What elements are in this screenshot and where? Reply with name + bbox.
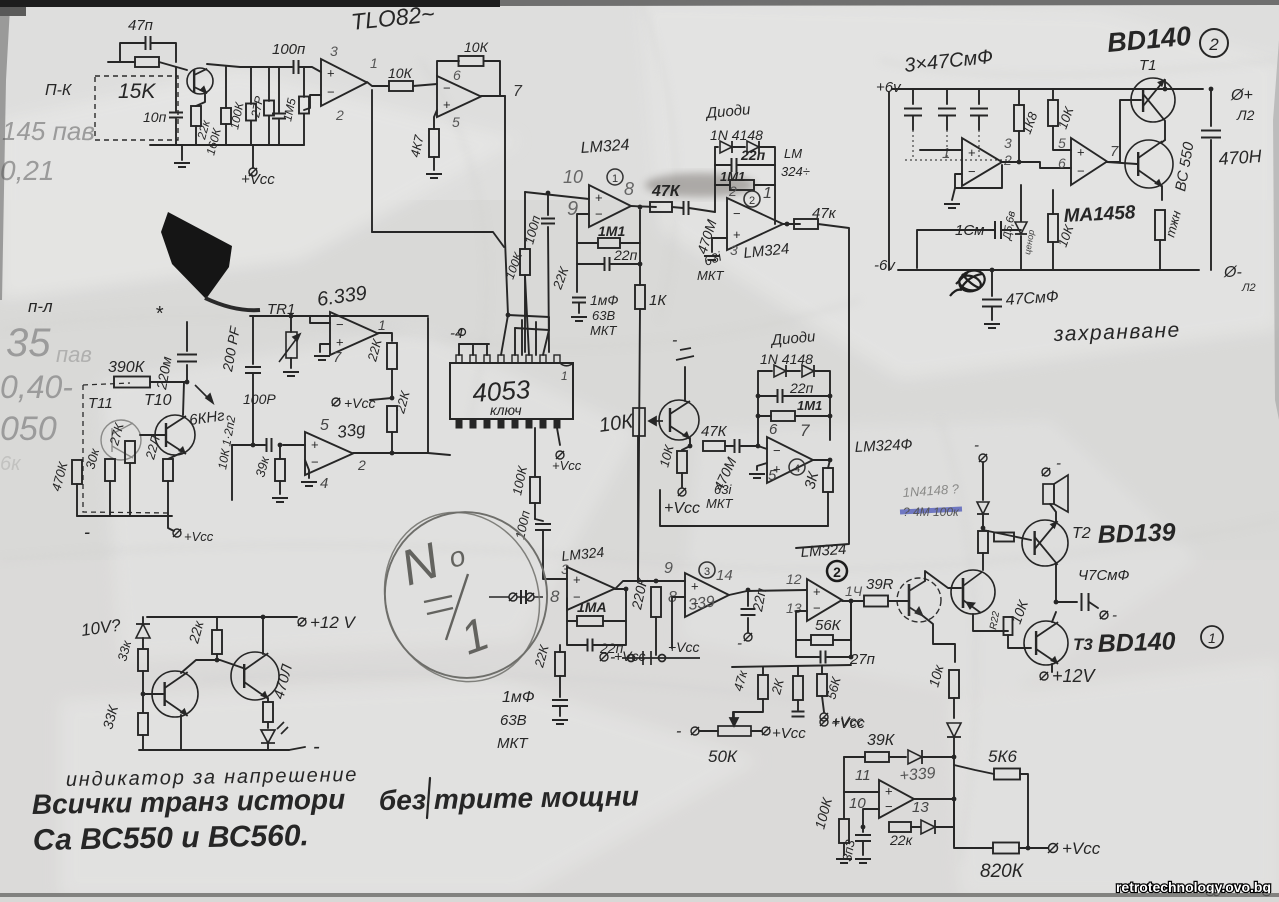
wire below 100K — [534, 503, 536, 519]
wire ind A emitter — [180, 715, 182, 750]
wire top chain to driver2 — [982, 553, 984, 570]
wire diode b to vert — [936, 826, 954, 828]
svg-text:−: − — [595, 207, 603, 222]
node net — [849, 655, 854, 660]
svg-text:+: + — [968, 145, 976, 160]
svg-text:12: 12 — [786, 571, 802, 587]
resistor 1M stage5 fb — [577, 616, 603, 626]
pencil No text — [394, 532, 495, 665]
svg-text:22п: 22п — [789, 380, 814, 396]
svg-text:22п: 22п — [613, 247, 638, 263]
wire driver1 coll — [925, 571, 961, 588]
svg-text:1мФ: 1мФ — [502, 689, 535, 706]
wire 47K to cap — [672, 207, 683, 208]
wire to vcc right — [1028, 847, 1048, 849]
wire fb4 mid — [787, 370, 800, 372]
circled 1 stage1 — [607, 169, 623, 185]
potentiometer 50K — [718, 712, 751, 736]
wire fb4 22n right — [784, 395, 830, 397]
zener D5V6 — [1015, 222, 1027, 234]
svg-text:-: - — [676, 723, 681, 740]
wire 3n3 bottom — [862, 842, 864, 855]
resistor 39K osc — [865, 752, 889, 762]
capacitor 2k bottom — [792, 712, 805, 717]
wire gnd stub — [181, 145, 183, 160]
node plus rail — [546, 191, 551, 196]
wire bus pin2 — [472, 344, 474, 355]
node 22n right — [638, 262, 643, 267]
wire 56K net top — [821, 666, 823, 674]
svg-text:МКТ: МКТ — [706, 496, 733, 511]
capacitor 47CmF bottom — [982, 300, 1002, 307]
wire fb4 right — [815, 371, 830, 440]
resistor 220K — [651, 587, 661, 617]
svg-text:пав: пав — [56, 342, 92, 367]
resistor 4K7 — [429, 129, 439, 157]
resistor 1M1 stage4 — [771, 411, 795, 421]
phi vcc stage3b — [600, 653, 608, 661]
ground 1uF stage5 — [552, 720, 568, 724]
node 22k mid — [390, 396, 395, 401]
wire 22n stage5 right — [593, 621, 626, 645]
wire driver2 node — [1001, 630, 1008, 632]
capacitor 100P — [267, 438, 272, 452]
svg-text:П-К: П-К — [45, 82, 73, 99]
transistor driver1 — [897, 578, 941, 622]
svg-text:+: + — [443, 97, 451, 112]
wire 2K bottom — [797, 700, 799, 710]
resistor 22k osc — [889, 822, 911, 832]
op-amp LM324 stage4 — [767, 437, 813, 483]
wire 100n below join — [535, 519, 543, 521]
wire 22K ind bottom — [216, 654, 218, 660]
svg-text:33g: 33g — [336, 419, 367, 442]
resistor 22K a — [387, 343, 397, 369]
svg-text:+: + — [691, 579, 699, 594]
svg-text:-4: -4 — [450, 325, 463, 342]
wire p-l bottom rail — [77, 515, 172, 517]
wire 100n top stub — [547, 193, 549, 215]
svg-text:LМ324: LМ324 — [800, 541, 847, 561]
smudge charcoal — [645, 173, 755, 197]
svg-text:7: 7 — [333, 349, 342, 366]
svg-text:-: - — [974, 437, 979, 454]
wire stage4 bottom rail — [660, 490, 828, 526]
wire stage5 fb — [603, 589, 626, 621]
wire stage1 plus rail — [525, 192, 589, 199]
resistor 56K fb — [811, 635, 833, 645]
wire 1M5 top — [303, 67, 305, 97]
wire 47k bottom — [733, 699, 763, 720]
phi Vcc 4053 — [556, 451, 564, 459]
capacitor mid — [272, 114, 286, 119]
node 22p tap — [746, 588, 751, 593]
pencil No dash — [424, 574, 468, 640]
phi 50K right — [762, 727, 770, 735]
svg-text:27п: 27п — [849, 651, 875, 668]
wire 10k down — [231, 445, 233, 500]
wire input to 15K — [108, 61, 135, 63]
resistor 15K — [135, 57, 159, 67]
capacitor 22p — [741, 609, 756, 615]
resistor 22ohm — [163, 459, 173, 481]
svg-text:100п: 100п — [272, 41, 305, 58]
node stage4 out — [828, 458, 833, 463]
wire 1M5 bottom — [303, 114, 305, 145]
stroke under moshtni — [427, 778, 430, 818]
pin bottom 1 4053 — [456, 419, 462, 428]
pin top 6 4053 — [526, 355, 532, 363]
wire 22p top — [747, 590, 749, 606]
pin top 3 4053 — [484, 355, 490, 363]
wire 820K right — [1019, 847, 1028, 849]
circled 3 stage3 — [699, 562, 715, 578]
resistor 10K interstage — [389, 81, 413, 91]
wire inverting input loop — [304, 95, 321, 110]
svg-text:4: 4 — [794, 463, 800, 475]
svg-text:0,21: 0,21 — [0, 155, 55, 186]
wire 470M top — [1210, 89, 1212, 126]
resistor 470ohm — [263, 702, 273, 722]
potentiometer 10K — [633, 408, 663, 436]
node bias osc — [952, 755, 957, 760]
wire osc fb left — [844, 756, 865, 758]
wire bus pin5b — [514, 328, 516, 355]
svg-text:6: 6 — [1058, 155, 1066, 171]
ground psA — [944, 204, 960, 208]
resistor 390K — [114, 377, 150, 388]
op-amp LM324 stage5 — [567, 567, 615, 610]
node osc minus — [861, 825, 866, 830]
wire to 4053 left pin — [428, 453, 450, 455]
wire 160K top — [225, 67, 227, 108]
capacitor 10n — [169, 113, 183, 118]
svg-text:3: 3 — [1004, 135, 1012, 151]
wire cap1 top — [912, 89, 914, 104]
wire 339a minus in — [310, 316, 330, 323]
phi minus bus — [459, 329, 466, 336]
transistor T11 pencil — [101, 420, 141, 460]
phi 50K left — [691, 727, 699, 735]
resistor 33K b — [138, 713, 148, 735]
blue strike mark — [900, 505, 962, 519]
svg-text:14: 14 — [716, 567, 733, 584]
transistor T1 BD140 — [1131, 78, 1175, 122]
svg-text:1К: 1К — [649, 292, 667, 309]
phi vcc 56knet — [820, 713, 828, 721]
wire minus chain down — [576, 264, 578, 292]
svg-text:10: 10 — [563, 167, 583, 187]
wire 27K bottom — [129, 463, 131, 516]
wire 22k top — [196, 94, 205, 106]
wire left vertical — [888, 92, 890, 270]
phi Vcc 339 — [332, 398, 340, 406]
wire 10K ps1 bottom — [1053, 126, 1071, 150]
ground stage4 plus — [749, 474, 765, 478]
svg-text:-: - — [1056, 455, 1061, 472]
pin top 1 4053 — [456, 355, 462, 363]
wire 50K right — [751, 730, 762, 732]
capacitor 22n stage4 — [778, 389, 783, 403]
wire stage1 out — [631, 206, 656, 207]
svg-text:без трите мощни: без трите мощни — [379, 780, 639, 816]
node 39k top — [278, 443, 283, 448]
node phi Vcc — [249, 168, 257, 176]
svg-text:+Vcc: +Vcc — [831, 715, 865, 732]
svg-text:-: - — [672, 332, 677, 349]
wire cap mid top — [278, 67, 280, 112]
wire pin vcc — [557, 428, 560, 445]
wire T1 to BC550 — [1161, 140, 1165, 143]
svg-text:8: 8 — [550, 587, 560, 606]
wire 3K top — [828, 460, 830, 468]
svg-text:2: 2 — [833, 564, 841, 580]
wire psA gnd stub — [952, 188, 955, 200]
svg-text:−: − — [327, 84, 335, 99]
svg-text:+: + — [885, 784, 893, 799]
wire 22p bottom — [747, 618, 749, 632]
svg-text:Са ВС550 и ВС560.: Са ВС550 и ВС560. — [33, 819, 310, 857]
node TR1 top — [289, 314, 294, 319]
wire osc out — [914, 798, 954, 800]
node x508 — [506, 313, 511, 318]
wire 39k top — [279, 445, 281, 459]
capacitor 100n below — [535, 524, 551, 530]
LED indicator — [261, 722, 288, 743]
wire T10 emitter down — [168, 453, 181, 459]
wire psA out — [1002, 161, 1019, 163]
wire 39k bottom — [279, 481, 281, 494]
wire zener top — [1020, 185, 1022, 221]
svg-text:МКТ: МКТ — [697, 268, 724, 283]
wire 47k top — [762, 667, 764, 675]
svg-text:1: 1 — [370, 55, 378, 71]
resistor 30K — [105, 459, 115, 481]
wire 22n left — [577, 243, 604, 264]
wire stage3 out — [729, 590, 806, 595]
wire 47n branch — [120, 43, 145, 62]
wire out right long — [796, 224, 849, 548]
resistor 100K below 4053 — [530, 477, 540, 503]
svg-text:39R: 39R — [866, 576, 894, 593]
svg-text:LМ: LМ — [784, 146, 802, 161]
wire ind B emitter — [267, 698, 269, 702]
wire feedback right — [484, 61, 500, 96]
node 47CmF — [990, 268, 995, 273]
wire 220K bottom — [655, 617, 657, 655]
svg-text:Л2: Л2 — [1241, 282, 1256, 294]
wire 100K chain top — [524, 192, 526, 248]
diode osc b — [921, 820, 935, 834]
diode 1N4148 d — [802, 365, 814, 377]
wire 10K mod bottom — [681, 473, 683, 487]
wire long 1K down segment — [637, 436, 639, 581]
pin bottom 7 4053 — [540, 419, 546, 428]
ground 339b minus — [301, 482, 317, 486]
svg-text:2: 2 — [357, 457, 366, 473]
wire 200pf bottom — [252, 374, 254, 445]
wire 100n down to 4053 — [548, 227, 549, 352]
svg-text:Т3: Т3 — [1073, 635, 1093, 654]
svg-text:+: + — [813, 584, 821, 599]
wire stage2b minus — [796, 611, 807, 640]
svg-text:2: 2 — [1208, 35, 1219, 54]
ground 100K osc — [836, 859, 852, 863]
svg-text:6: 6 — [769, 421, 778, 438]
wire T1 emitter to rail — [1164, 80, 1166, 89]
wire 22K b bottom — [391, 432, 393, 453]
wire stage5 out — [615, 581, 685, 589]
svg-text:п-л: п-л — [28, 297, 53, 316]
wire 10K ps2 top — [1052, 190, 1054, 214]
svg-text:1Ч: 1Ч — [845, 583, 863, 599]
svg-text:47К: 47К — [701, 423, 728, 440]
wire stage5 fb left — [567, 598, 577, 621]
wire 22K ind top — [216, 617, 218, 630]
wire between diodes — [733, 146, 745, 148]
svg-text:1: 1 — [612, 173, 618, 185]
wire 27n right — [827, 601, 851, 657]
wire 4053 bottom pin3 — [534, 428, 536, 476]
resistor dzh — [1155, 210, 1165, 240]
svg-text:+Vcc: +Vcc — [614, 648, 646, 664]
wire 1K8 bottom — [1018, 131, 1020, 162]
svg-text:3: 3 — [730, 242, 738, 258]
ground 3n3 — [855, 859, 871, 863]
resistor 470K — [72, 460, 82, 484]
capacitor 47CmF 3 — [970, 109, 988, 116]
svg-text:63В: 63В — [500, 712, 527, 729]
wire 30K bottom — [109, 481, 111, 516]
wire 4K7 top — [434, 110, 437, 129]
wire ind A coll — [181, 660, 243, 673]
svg-text:Т1: Т1 — [1139, 57, 1157, 74]
svg-text:5: 5 — [320, 417, 329, 434]
pin bottom 4 4053 — [498, 419, 504, 428]
node osc out — [952, 797, 957, 802]
wire cap out right — [1089, 602, 1098, 608]
capacitor 1CmF — [995, 221, 1001, 239]
wire 22K a bottom — [391, 369, 393, 398]
capacitor 27n — [821, 651, 826, 664]
transistor ind A — [152, 671, 198, 717]
wire 22K stage5 bottom — [559, 676, 561, 697]
wire bus pin6b — [521, 320, 523, 355]
resistor 39R — [864, 596, 888, 607]
wire op1 down — [371, 90, 373, 232]
resistor 100K chain — [520, 249, 530, 275]
op-amp MA1458b — [1071, 138, 1107, 185]
wire T3 collector down — [1051, 664, 1053, 672]
svg-text:Ø-: Ø- — [1223, 264, 1242, 281]
wire speaker to T2 — [1050, 504, 1056, 522]
wire 1K down long — [638, 309, 640, 581]
node fb4 c — [756, 414, 761, 419]
resistor 10K ps2 — [1048, 214, 1058, 242]
pin bottom 2 4053 — [470, 419, 476, 428]
wire 10K ps2 bottom — [1052, 242, 1054, 270]
transistor modulator — [659, 400, 699, 440]
resistor 10K ps1 — [1048, 100, 1058, 126]
wire 22n right — [610, 243, 640, 264]
svg-text:1N 4148: 1N 4148 — [760, 351, 813, 367]
wire zener bottom — [1020, 236, 1022, 270]
node top chain — [981, 526, 986, 531]
svg-text:13: 13 — [912, 799, 929, 816]
node stage4 in — [756, 444, 761, 449]
wire feedback left — [437, 61, 459, 76]
pin top 8 4053 — [554, 355, 560, 363]
svg-text:2: 2 — [749, 195, 755, 207]
svg-text:47п: 47п — [128, 17, 153, 34]
wire 220m bottom — [186, 365, 188, 382]
wire 47CmF bottom stub — [991, 270, 993, 296]
wire zener ind bot — [142, 638, 144, 648]
wire main line y316 — [250, 315, 428, 317]
svg-text:470Н: 470Н — [1218, 146, 1263, 169]
wire fb mid2 right — [754, 184, 775, 186]
wire 100K osc bottom — [843, 843, 845, 855]
wire 470 to led — [267, 722, 269, 728]
transistor T2 BD139 — [1022, 520, 1068, 566]
wire 1CmF right — [1001, 229, 1021, 231]
wire op2 output — [481, 95, 505, 97]
wire 100K top — [250, 67, 252, 104]
wire 27P bottom — [268, 116, 270, 145]
wire to stage5 plus — [543, 531, 567, 579]
resistor 1M5 — [299, 97, 309, 114]
svg-text:+: + — [336, 334, 344, 349]
wire 22n stage5 left — [567, 621, 587, 645]
svg-text:Ч7СмФ: Ч7СмФ — [1078, 567, 1130, 584]
wire 100K chain pin — [525, 276, 529, 355]
wire zener ind top — [142, 617, 144, 624]
svg-text:ВD139: ВD139 — [1097, 518, 1176, 549]
resistor 22K ind — [212, 630, 222, 654]
wire stage4 plus gnd — [757, 463, 767, 470]
resistor 47k net — [758, 675, 768, 699]
wire net top — [732, 665, 851, 667]
ground П-К — [174, 163, 190, 167]
svg-text:+: + — [595, 190, 603, 205]
capacitor 220m — [177, 355, 197, 362]
wire out to cap — [1056, 601, 1077, 603]
resistor 2K net — [793, 676, 803, 700]
svg-text:9: 9 — [664, 560, 673, 577]
svg-text:+: + — [573, 572, 581, 587]
svg-text:1МА: 1МА — [577, 599, 607, 615]
wire 33K b bottom — [142, 735, 144, 750]
wire 100P left — [232, 444, 265, 446]
node stage1 out — [638, 205, 643, 210]
wire 5K6 left — [954, 765, 994, 774]
blob tail stroke — [205, 298, 260, 310]
wire ind A base — [143, 693, 163, 695]
pin bottom 3 4053 — [484, 419, 490, 428]
wire emitter rail — [207, 64, 292, 67]
wire T3 emitter up — [1052, 612, 1056, 622]
svg-text:-: - — [84, 522, 90, 542]
svg-text:−: − — [443, 81, 451, 96]
pin bottom 5 4053 — [512, 419, 518, 428]
phi top chain — [979, 454, 987, 462]
resistor 47k stage2 out — [794, 219, 818, 229]
node fb4 a — [756, 394, 761, 399]
wire bus pin1 — [458, 344, 460, 355]
resistor 56K net — [817, 674, 827, 696]
svg-text:Л2: Л2 — [1236, 107, 1255, 123]
wire node to pin5 — [508, 315, 549, 355]
